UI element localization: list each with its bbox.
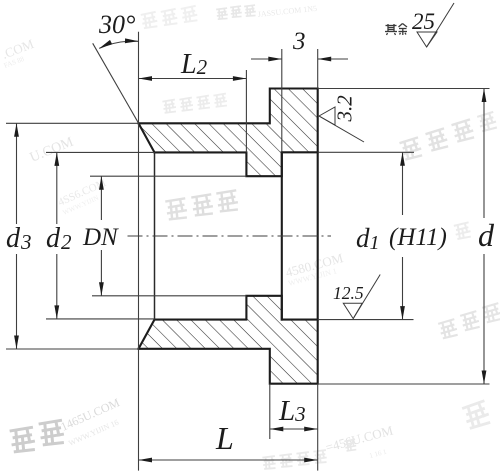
d bottom extension line [318, 383, 490, 385]
d1 top arrow [400, 152, 405, 166]
bottom weld bevel edge [139, 320, 155, 349]
watermark bottom-left char2 [39, 420, 65, 445]
counterbore d1 bottom face [281, 152, 283, 319]
left face edge / L extension line [138, 32, 140, 471]
30 deg bevel construction line [93, 43, 139, 123]
label 3.2 (rotated) [333, 95, 357, 123]
watermark bottom-centre char2 [279, 454, 293, 467]
watermark centre char3 [216, 190, 239, 212]
dim3 left arrow [268, 57, 282, 62]
d3 bottom arrow [14, 336, 19, 350]
remainder roughness note (qi yu) [385, 24, 407, 36]
d2 top arrow [54, 152, 59, 166]
bevel root edge [154, 152, 156, 319]
d2 top extension line [46, 151, 155, 153]
d top extension line [318, 88, 490, 90]
L3/L right extension line [317, 384, 319, 471]
d3 bottom extension line [6, 348, 139, 350]
DN bottom extension line [92, 295, 246, 297]
DN top extension line [90, 175, 246, 177]
watermark bore-area char2 [179, 98, 193, 112]
30 deg dimension arc [99, 41, 138, 48]
watermark right-edge char4 [477, 112, 498, 132]
watermark right-lower char2 [460, 311, 480, 331]
svg-text:12.5: 12.5 [333, 283, 364, 303]
watermark centre char2 [191, 194, 214, 216]
angle arc left arrow [99, 40, 112, 49]
watermark centre char1 [165, 198, 188, 220]
roughness symbol 25 (remainder, top right) [417, 3, 454, 47]
d1 dimension line [402, 152, 404, 215]
DN bottom arrow [99, 282, 104, 296]
DN top arrow [99, 176, 104, 190]
watermark top-centre char3 [244, 5, 256, 16]
watermark bore-area char3 [196, 96, 210, 110]
svg-text:d: d [478, 217, 495, 253]
section hatch top [139, 89, 318, 177]
d3 top extension line [6, 122, 139, 124]
d2 bottom extension line [46, 318, 155, 320]
L dimension line [139, 459, 318, 461]
part outer profile [139, 89, 318, 384]
watermark bottom-centre char1 [262, 456, 276, 469]
watermark bottom-centre small blob [344, 439, 357, 451]
section hatch bottom [139, 296, 318, 384]
L2 right arrow [233, 76, 247, 81]
d2 bottom arrow [54, 305, 59, 319]
roughness symbol 12.5 on bore surface [343, 275, 380, 319]
d bottom arrow [482, 371, 487, 385]
watermark bottom-left char1 [10, 427, 36, 452]
d top arrow [482, 89, 487, 103]
watermark right-centre faint char [454, 222, 472, 239]
svg-text:DN: DN [82, 224, 119, 251]
watermark bottom-centre char4 [313, 450, 327, 463]
dim3 right arrow [318, 57, 332, 62]
DN dimension line [100, 176, 102, 220]
angle arc right arrow [125, 38, 139, 43]
d1 top extension line [318, 151, 414, 153]
dim 3 right extension line [317, 49, 319, 89]
L left arrow [139, 458, 153, 463]
watermark right-edge char1 [399, 137, 423, 160]
L3 right arrow [304, 427, 318, 432]
watermark top-left char1 [141, 12, 158, 29]
d1 bottom extension line [318, 319, 414, 321]
watermark bore-area char4 [213, 94, 227, 108]
roughness symbol 3.2 on flange face [319, 107, 364, 142]
watermark right-edge char2 [425, 128, 449, 151]
dim 3 right dimension line [318, 58, 348, 60]
L3 dimension line [270, 428, 318, 430]
watermark top-left char2 [161, 9, 178, 26]
d1 bottom arrow [400, 306, 405, 320]
watermark bottom-centre char3 [296, 452, 310, 465]
svg-text:3.2: 3.2 [333, 95, 357, 123]
dim 3 left extension line [281, 49, 283, 152]
watermark bottom-right char [462, 401, 491, 430]
watermark right-lower char1 [438, 319, 458, 339]
svg-text:30°: 30° [98, 10, 135, 39]
bore profile bottom [155, 296, 318, 320]
L3 left arrow [270, 427, 284, 432]
L2 right extension line [245, 70, 247, 152]
L3 left extension line [269, 384, 271, 439]
bore profile top [155, 152, 318, 176]
centerline [128, 235, 332, 237]
watermark top-centre char1 [216, 8, 228, 19]
watermark right-lower char3 [482, 303, 500, 323]
svg-text:25: 25 [412, 9, 435, 34]
svg-text:3: 3 [292, 28, 306, 55]
watermark right-edge char3 [451, 119, 475, 142]
L2 dimension line [139, 78, 247, 80]
d2 dimension line [56, 152, 58, 224]
watermark top-left char3 [181, 6, 198, 23]
watermark bore-area char1 [162, 100, 176, 114]
watermark top-centre char2 [230, 6, 242, 17]
dim 3 left dimension line [251, 58, 282, 60]
d3 top arrow [14, 123, 19, 137]
top weld bevel edge [139, 123, 155, 152]
d dimension line [483, 89, 485, 219]
L2 left arrow [139, 76, 153, 81]
L right arrow [304, 458, 318, 463]
svg-text:L: L [215, 420, 234, 456]
d3 dimension line [16, 123, 18, 224]
